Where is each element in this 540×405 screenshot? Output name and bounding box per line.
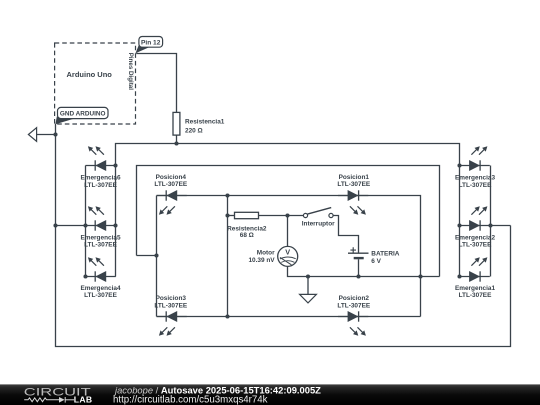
ground symbol bbox=[300, 277, 317, 303]
wire top rail bbox=[116, 144, 460, 166]
LED Emergencia2 bbox=[460, 206, 490, 230]
junction at emergencia cathode link bbox=[53, 223, 57, 227]
junction under resistor R1 bbox=[174, 141, 178, 145]
wire port to node bbox=[37, 134, 56, 136]
wire posicion bottom row bbox=[157, 316, 421, 318]
svg-text:Interruptor: Interruptor bbox=[302, 220, 335, 227]
svg-text:10.39 nV: 10.39 nV bbox=[248, 257, 275, 264]
resistor Resistencia2 bbox=[235, 212, 259, 218]
wire posicion anode vertical bbox=[227, 196, 229, 317]
svg-text:LTL-307EE: LTL-307EE bbox=[337, 302, 370, 309]
wire switch to battery top bbox=[333, 216, 358, 254]
svg-text:LTL-307EE: LTL-307EE bbox=[84, 182, 117, 189]
junction emergencia5 anode bbox=[113, 223, 117, 227]
port GND arrow bbox=[28, 128, 36, 142]
LED Posicion1 bbox=[338, 190, 368, 214]
svg-text:Motor: Motor bbox=[257, 250, 275, 257]
wire motor to battery rail bbox=[288, 266, 440, 276]
junction emergencia6 anode bbox=[113, 163, 117, 167]
svg-text:68 Ω: 68 Ω bbox=[240, 232, 254, 239]
svg-text:6 V: 6 V bbox=[371, 258, 381, 265]
svg-text:LTL-307EE: LTL-307EE bbox=[459, 292, 492, 299]
svg-text:GND ARDUINO: GND ARDUINO bbox=[60, 111, 106, 118]
wire Pin12 to resistor R1 bbox=[136, 54, 176, 113]
wire left column anode vertical bbox=[115, 166, 117, 277]
svg-text:Posicion3: Posicion3 bbox=[156, 295, 187, 302]
wire left column cathode vertical bbox=[85, 166, 87, 277]
wire battery to rail bbox=[358, 259, 360, 276]
junction emergencia1 anode bbox=[457, 274, 461, 278]
junction emergencia4 cathode bbox=[83, 274, 87, 278]
svg-text:Emergencia5: Emergencia5 bbox=[80, 234, 120, 241]
svg-text:Emergencia1: Emergencia1 bbox=[455, 285, 495, 292]
svg-text:V: V bbox=[285, 247, 290, 256]
junction posicion4 anode bbox=[225, 193, 229, 197]
svg-text:Emergencia4: Emergencia4 bbox=[80, 285, 120, 292]
wire right column anode vertical bbox=[459, 166, 461, 277]
junction emergencia3 anode bbox=[457, 163, 461, 167]
junction posicion cathode link bbox=[154, 253, 158, 257]
Arduino Uno module box bbox=[55, 43, 136, 124]
svg-text:Pin 12: Pin 12 bbox=[141, 39, 161, 46]
junction resistor R2 left bbox=[225, 213, 229, 217]
junction ground stem bbox=[306, 274, 310, 278]
svg-text:220 Ω: 220 Ω bbox=[185, 127, 203, 134]
flag GND ARDUINO bbox=[55, 107, 108, 124]
wire motor branch vertical bbox=[287, 216, 289, 247]
LED Emergencia1 bbox=[460, 257, 490, 281]
switch Interruptor bbox=[303, 208, 333, 218]
svg-text:Arduino Uno: Arduino Uno bbox=[66, 70, 112, 79]
svg-text:LTL-307EE: LTL-307EE bbox=[154, 302, 187, 309]
flag Pin 12 bbox=[136, 37, 163, 54]
junction posicion right vertical bbox=[418, 274, 422, 278]
svg-text:Emergencia2: Emergencia2 bbox=[455, 234, 495, 241]
resistor Resistencia1 bbox=[173, 112, 180, 135]
junction emergencia2 cathode bbox=[488, 223, 492, 227]
wire R2 to switch bbox=[259, 215, 304, 217]
logo resistor-diode motif bbox=[24, 397, 74, 403]
wire inner box bbox=[137, 166, 440, 277]
svg-text:Resistencia1: Resistencia1 bbox=[185, 119, 225, 126]
LED Emergencia3 bbox=[460, 146, 490, 170]
svg-text:Posicion2: Posicion2 bbox=[339, 295, 370, 302]
battery BATERIA bbox=[348, 247, 369, 258]
svg-text:Emergencia3: Emergencia3 bbox=[455, 175, 495, 182]
svg-text:LTL-307EE: LTL-307EE bbox=[154, 181, 187, 188]
svg-text:LTL-307EE: LTL-307EE bbox=[459, 242, 492, 249]
svg-text:Emergencia6: Emergencia6 bbox=[80, 175, 120, 182]
motor (voltmeter) bbox=[278, 246, 298, 266]
svg-text:BATERIA: BATERIA bbox=[371, 250, 399, 257]
svg-text:Posicion1: Posicion1 bbox=[339, 174, 370, 181]
junction battery negative bbox=[356, 274, 360, 278]
svg-text:http://circuitlab.com/c5u3mxqs: http://circuitlab.com/c5u3mxqs4r74k bbox=[113, 395, 268, 405]
LED Posicion3 bbox=[157, 311, 187, 335]
wire R1 to top rail bbox=[176, 135, 178, 143]
svg-text:LAB: LAB bbox=[74, 395, 93, 405]
svg-text:Pines Digital: Pines Digital bbox=[127, 53, 134, 90]
svg-text:LTL-307EE: LTL-307EE bbox=[84, 242, 117, 249]
wire posicion top row bbox=[157, 196, 421, 317]
junction motor branch bbox=[285, 213, 289, 217]
wire R2 branch bbox=[228, 215, 235, 217]
LED Emergencia5 bbox=[86, 206, 116, 230]
LED Emergencia4 bbox=[86, 257, 116, 281]
LED Emergencia6 bbox=[86, 146, 116, 170]
svg-text:LTL-307EE: LTL-307EE bbox=[337, 181, 370, 188]
wire emergencia2 link to far right bbox=[491, 225, 511, 227]
wire posicion cathode vertical bbox=[156, 196, 158, 317]
junction emergencia2 anode bbox=[457, 223, 461, 227]
junction posicion3 anode bbox=[225, 314, 229, 318]
wire right column cathode vertical bbox=[490, 166, 492, 277]
junction at GND port wire bbox=[53, 132, 57, 136]
wire emergencia link to left main bbox=[56, 225, 86, 227]
LED Posicion4 bbox=[157, 190, 187, 214]
wire inner box link bbox=[137, 255, 157, 257]
LED Posicion2 bbox=[338, 311, 368, 335]
wire left main vertical + bottom rail + far right vertical bbox=[56, 124, 511, 347]
svg-text:LTL-307EE: LTL-307EE bbox=[459, 182, 492, 189]
junction emergencia5 cathode bbox=[83, 223, 87, 227]
svg-text:LTL-307EE: LTL-307EE bbox=[84, 292, 117, 299]
svg-text:Posicion4: Posicion4 bbox=[156, 174, 187, 181]
